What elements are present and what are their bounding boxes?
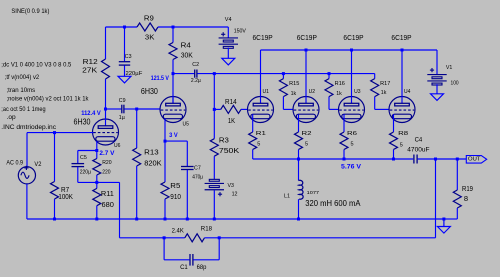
svg-text:4700uF: 4700uF: [407, 147, 430, 153]
svg-text:R16: R16: [335, 81, 345, 87]
svg-text:R14: R14: [225, 99, 237, 106]
svg-text:1k: 1k: [291, 91, 297, 97]
svg-text:5.76 V: 5.76 V: [341, 164, 361, 170]
svg-text:68p: 68p: [197, 265, 207, 271]
svg-text:750K: 750K: [219, 146, 239, 155]
svg-text:R15: R15: [289, 81, 299, 87]
svg-text:R18: R18: [201, 226, 213, 233]
svg-text:1µ: 1µ: [119, 115, 125, 121]
svg-text:5: 5: [400, 143, 403, 149]
svg-text:SINE(0 0.9 1k): SINE(0 0.9 1k): [11, 9, 49, 15]
svg-text:6H30: 6H30: [74, 117, 92, 126]
svg-text:220µ: 220µ: [80, 170, 91, 176]
svg-text:U1: U1: [263, 89, 270, 95]
svg-text:2.2µ: 2.2µ: [191, 78, 201, 84]
svg-text:820K: 820K: [144, 158, 161, 167]
svg-text:.op: .op: [7, 115, 17, 121]
svg-text:6C19P: 6C19P: [391, 33, 411, 42]
svg-text:2.7 V: 2.7 V: [99, 151, 114, 157]
svg-text:V4: V4: [225, 17, 232, 23]
svg-text:470µ: 470µ: [192, 175, 203, 181]
svg-text:680: 680: [102, 200, 114, 209]
svg-text:6C19P: 6C19P: [297, 33, 317, 42]
svg-text:1077: 1077: [307, 190, 320, 196]
svg-text:R3: R3: [219, 135, 229, 144]
svg-text:R17: R17: [380, 81, 390, 87]
svg-text:R6: R6: [347, 131, 357, 137]
svg-text:5: 5: [257, 141, 260, 147]
svg-text:L1: L1: [284, 194, 290, 200]
svg-text:5: 5: [305, 141, 308, 147]
svg-text:220: 220: [102, 170, 110, 176]
svg-text:100: 100: [451, 80, 459, 86]
svg-text:R4: R4: [181, 41, 191, 50]
svg-text:220µF: 220µF: [126, 71, 144, 77]
svg-text:112.4 V: 112.4 V: [81, 111, 101, 117]
svg-text:R13: R13: [144, 147, 159, 156]
svg-text:OUT: OUT: [468, 157, 481, 163]
svg-text:C7: C7: [194, 166, 201, 172]
svg-text:AC 0.9: AC 0.9: [6, 160, 23, 167]
svg-text:V1: V1: [446, 65, 453, 71]
svg-text:;tran 10ms: ;tran 10ms: [7, 88, 36, 94]
svg-text:150V: 150V: [234, 29, 247, 35]
svg-text:R9: R9: [144, 13, 154, 22]
svg-text:V3: V3: [228, 183, 235, 189]
svg-text:C1: C1: [180, 265, 188, 271]
svg-text:;dc V1 0 400 10 V3 0 8 0.5: ;dc V1 0 400 10 V3 0 8 0.5: [1, 63, 72, 69]
svg-text:8: 8: [464, 194, 468, 203]
svg-text:;ac oct 50 1 1meg: ;ac oct 50 1 1meg: [1, 107, 45, 113]
svg-text:C4: C4: [415, 138, 423, 144]
svg-text:3 V: 3 V: [169, 133, 178, 139]
svg-text:C3: C3: [125, 54, 132, 60]
svg-text:6C19P: 6C19P: [253, 33, 273, 42]
svg-text:;noise v(n004) v2 oct 101 1k 1: ;noise v(n004) v2 oct 101 1k 1k: [7, 96, 90, 102]
svg-text:R20: R20: [102, 160, 111, 166]
svg-text:27K: 27K: [82, 65, 97, 74]
svg-text:1K: 1K: [228, 118, 235, 125]
svg-text:1k: 1k: [336, 91, 342, 97]
svg-text:6H30: 6H30: [141, 87, 159, 96]
svg-text:5: 5: [351, 141, 354, 147]
svg-text:U2: U2: [309, 89, 316, 95]
svg-text:C9: C9: [119, 98, 126, 104]
svg-text:C5: C5: [80, 155, 87, 161]
svg-text:3K: 3K: [145, 32, 155, 41]
svg-text:U4: U4: [404, 89, 411, 95]
svg-text:12: 12: [232, 191, 238, 197]
svg-text:320 mH 600 mA: 320 mH 600 mA: [305, 199, 361, 208]
svg-text:910: 910: [170, 192, 181, 201]
svg-text:R2: R2: [302, 131, 312, 137]
svg-text:30K: 30K: [181, 51, 193, 60]
svg-text:;tf v(n004) v2: ;tf v(n004) v2: [5, 75, 40, 81]
svg-text:R1: R1: [256, 131, 266, 137]
svg-text:100K: 100K: [58, 192, 73, 201]
svg-text:R5: R5: [170, 181, 180, 190]
svg-text:1k: 1k: [381, 90, 387, 96]
svg-text:.INC dmtriodep.inc: .INC dmtriodep.inc: [1, 125, 56, 131]
svg-text:6C19P: 6C19P: [343, 33, 363, 42]
svg-text:R11: R11: [101, 189, 114, 198]
svg-text:121.5 V: 121.5 V: [151, 76, 169, 82]
svg-text:2.4K: 2.4K: [172, 227, 185, 234]
svg-text:U5: U5: [183, 121, 190, 127]
svg-text:U3: U3: [354, 89, 361, 95]
svg-text:R19: R19: [462, 184, 473, 193]
svg-text:V2: V2: [34, 161, 41, 168]
svg-text:R8: R8: [398, 131, 408, 137]
svg-text:C2: C2: [192, 62, 199, 68]
svg-text:U6: U6: [114, 143, 121, 149]
